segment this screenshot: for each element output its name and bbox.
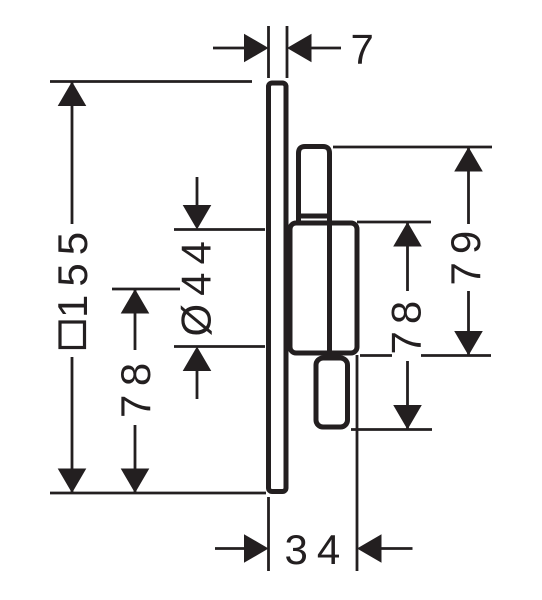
faceplate (side view)	[269, 83, 287, 492]
dim 78 left line lower segment	[134, 425, 137, 493]
arrow dim 7 left	[244, 34, 269, 63]
dim 34 right tail	[380, 547, 413, 550]
arrow dim 155 bottom	[58, 469, 87, 494]
dim 79 line upper segment	[467, 147, 470, 224]
arrow dim 7 right	[287, 34, 312, 63]
dim 34 left tail	[215, 547, 246, 550]
arrow dim 34 left	[244, 534, 269, 563]
lower spigot	[316, 358, 348, 427]
extension line valve axis left	[112, 288, 180, 291]
extension line stem top right	[333, 146, 492, 149]
extension line 7 left	[267, 26, 270, 78]
dim 155 line lower segment	[71, 357, 74, 493]
stem bottom flange line	[299, 214, 330, 219]
arrow dim 78 right top	[393, 222, 422, 247]
dim 7 right tail	[310, 47, 341, 50]
dim d44 top tail	[196, 177, 199, 207]
extension line below block right edge	[356, 355, 359, 571]
dim 78 right line lower segment	[406, 361, 409, 430]
dim d44 bottom tail	[196, 369, 199, 399]
arrow dim 155 top	[58, 82, 87, 107]
svg-text:34: 34	[285, 526, 350, 573]
svg-text:7: 7	[351, 26, 374, 73]
arrow dim d44 top	[183, 205, 212, 230]
svg-text:155: 155	[49, 224, 96, 318]
extension line block bottom right (left part)	[360, 354, 392, 357]
extension line block top right	[357, 221, 431, 224]
svg-text:79: 79	[442, 223, 489, 286]
dim 79 line lower segment	[467, 291, 470, 356]
extension line below plate	[267, 497, 270, 571]
square symbol of 155 label	[60, 322, 85, 348]
extension line 7 right	[286, 26, 289, 78]
arrow dim d44 bottom	[183, 347, 212, 372]
dim 155 line upper segment	[71, 82, 74, 225]
dim 78 left line upper segment	[134, 289, 137, 350]
arrow dim 78 left bottom	[121, 469, 150, 494]
handle stem (upper protrusion)	[299, 147, 330, 353]
arrow dim 79 bottom	[454, 331, 483, 356]
extension line spigot bottom	[351, 428, 432, 431]
valve block	[290, 223, 357, 353]
extension line plate bottom left	[50, 492, 266, 495]
svg-text:Ø44: Ø44	[173, 233, 220, 336]
arrow dim 78 right bottom	[393, 405, 422, 430]
arrow dim 78 left top	[121, 289, 150, 314]
dim 78 right line upper segment	[406, 222, 409, 291]
svg-text:78: 78	[112, 354, 159, 418]
svg-text:78: 78	[383, 294, 430, 355]
arrow dim 34 right	[357, 534, 382, 563]
extension line block bottom right (right part)	[421, 354, 491, 357]
extension line plate top left	[50, 80, 252, 83]
extension line d44 top	[174, 228, 265, 231]
arrow dim 79 top	[454, 147, 483, 172]
extension line d44 bottom	[174, 345, 265, 348]
dim 7 left tail	[213, 47, 245, 50]
